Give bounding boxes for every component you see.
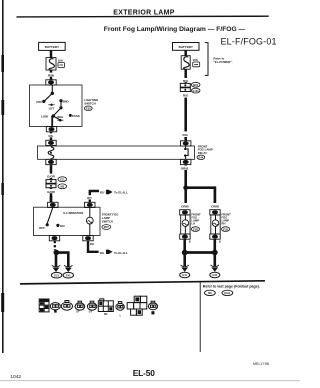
svg-text:M27: M27 bbox=[104, 225, 110, 229]
svg-text:LAMP: LAMP bbox=[191, 219, 199, 223]
svg-text:FOG: FOG bbox=[222, 216, 228, 220]
svg-text:OR/B: OR/B bbox=[181, 204, 189, 208]
svg-text:R/L: R/L bbox=[100, 251, 105, 255]
svg-text:E42: E42 bbox=[212, 273, 217, 277]
svg-text:R/G: R/G bbox=[183, 79, 189, 83]
svg-text:M6: M6 bbox=[208, 291, 212, 295]
svg-text:M21: M21 bbox=[193, 83, 199, 87]
svg-text:PASS: PASS bbox=[72, 114, 80, 118]
svg-text:OFF: OFF bbox=[36, 100, 42, 104]
svg-text:L: L bbox=[120, 314, 122, 317]
svg-text:SWITCH: SWITCH bbox=[102, 219, 113, 223]
svg-text:HIGH: HIGH bbox=[57, 115, 64, 119]
svg-text:ILLUMINATION: ILLUMINATION bbox=[63, 211, 83, 215]
svg-text:To EL-ILL: To EL-ILL bbox=[114, 191, 128, 195]
svg-text:R/L: R/L bbox=[90, 242, 95, 246]
svg-text:GY: GY bbox=[89, 311, 93, 314]
svg-text:E44: E44 bbox=[199, 155, 204, 159]
svg-text:RELAY: RELAY bbox=[198, 151, 207, 155]
svg-text:B: B bbox=[219, 239, 221, 243]
svg-text:M3: M3 bbox=[60, 185, 64, 189]
svg-text:FRONT: FRONT bbox=[191, 213, 201, 217]
svg-text:OR/B: OR/B bbox=[181, 167, 189, 171]
svg-text:15A: 15A bbox=[58, 58, 64, 62]
svg-text:R/Y: R/Y bbox=[100, 191, 105, 195]
svg-text:EXTERIOR LAMP: EXTERIOR LAMP bbox=[113, 9, 174, 16]
svg-text:BATTERY: BATTERY bbox=[179, 45, 194, 49]
svg-text:E101: E101 bbox=[193, 89, 200, 93]
svg-text:BATTERY: BATTERY bbox=[45, 45, 60, 49]
svg-text:E13: E13 bbox=[54, 274, 59, 278]
svg-text:M6: M6 bbox=[104, 313, 108, 316]
svg-text:G/OR: G/OR bbox=[47, 175, 56, 179]
svg-text:E41: E41 bbox=[182, 273, 187, 277]
svg-text:"EL-POWER".: "EL-POWER". bbox=[213, 60, 232, 64]
svg-text:ON: ON bbox=[60, 224, 65, 228]
svg-text:E39: E39 bbox=[223, 227, 228, 231]
svg-text:,: , bbox=[218, 293, 219, 296]
svg-text:LH: LH bbox=[191, 222, 195, 226]
svg-text:R/W: R/W bbox=[48, 74, 54, 78]
svg-text:,: , bbox=[84, 308, 85, 311]
svg-text:FRONT: FRONT bbox=[222, 213, 232, 217]
svg-text:R/Y: R/Y bbox=[87, 196, 92, 200]
svg-text:SWITCH: SWITCH bbox=[84, 102, 95, 106]
svg-text:R/L: R/L bbox=[49, 134, 54, 138]
svg-text:OFF: OFF bbox=[39, 226, 45, 230]
svg-text:FOG: FOG bbox=[191, 216, 197, 220]
svg-text:E41: E41 bbox=[66, 274, 71, 278]
svg-text:GY: GY bbox=[76, 311, 80, 314]
svg-text:To EL-ILL: To EL-ILL bbox=[114, 251, 128, 255]
svg-text:E30: E30 bbox=[86, 106, 91, 110]
svg-text:R/G: R/G bbox=[183, 133, 189, 137]
svg-text:Refer to last page (Foldout pa: Refer to last page (Foldout page). bbox=[203, 285, 260, 289]
svg-text:1042: 1042 bbox=[10, 374, 21, 380]
svg-text:E11: E11 bbox=[60, 177, 65, 181]
svg-text:EL-F/FOG-01: EL-F/FOG-01 bbox=[221, 37, 277, 47]
svg-text:LAMP: LAMP bbox=[222, 219, 230, 223]
svg-text:OR/B: OR/B bbox=[211, 204, 219, 208]
svg-text:G/OR: G/OR bbox=[47, 190, 56, 194]
svg-text:LOW: LOW bbox=[41, 114, 48, 118]
svg-text:E38: E38 bbox=[193, 227, 198, 231]
svg-text:Front Fog Lamp/Wiring Diagram: Front Fog Lamp/Wiring Diagram — F/FOG — bbox=[104, 26, 246, 33]
svg-text:RH: RH bbox=[222, 222, 226, 226]
svg-text:2ND: 2ND bbox=[63, 99, 70, 103]
svg-text:15A: 15A bbox=[192, 58, 198, 62]
svg-text:1ST: 1ST bbox=[49, 107, 55, 111]
svg-text:R/G: R/G bbox=[183, 94, 189, 98]
svg-text:MEL179B: MEL179B bbox=[253, 362, 270, 366]
svg-text:B: B bbox=[189, 239, 191, 243]
svg-text:EL-50: EL-50 bbox=[133, 368, 156, 378]
svg-text:E101: E101 bbox=[224, 291, 231, 295]
